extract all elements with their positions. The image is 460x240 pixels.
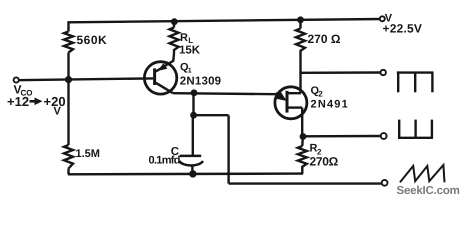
svg-text:2N491: 2N491: [311, 99, 349, 111]
svg-text:+12: +12: [7, 94, 29, 109]
svg-text:2: 2: [318, 89, 323, 98]
svg-text:270 Ω: 270 Ω: [308, 32, 341, 46]
svg-text:1: 1: [188, 68, 192, 75]
svg-text:SeekIC.com: SeekIC.com: [397, 185, 460, 197]
svg-text:+22.5V: +22.5V: [383, 21, 423, 35]
svg-text:V: V: [54, 106, 62, 118]
svg-text:15K: 15K: [179, 45, 201, 57]
svg-text:0.1mfd: 0.1mfd: [149, 154, 180, 166]
svg-text:560K: 560K: [77, 33, 108, 47]
svg-text:2N1309: 2N1309: [180, 75, 221, 87]
svg-text:R: R: [180, 32, 188, 44]
svg-text:270Ω: 270Ω: [310, 155, 339, 169]
svg-text:1.5M: 1.5M: [76, 148, 100, 160]
